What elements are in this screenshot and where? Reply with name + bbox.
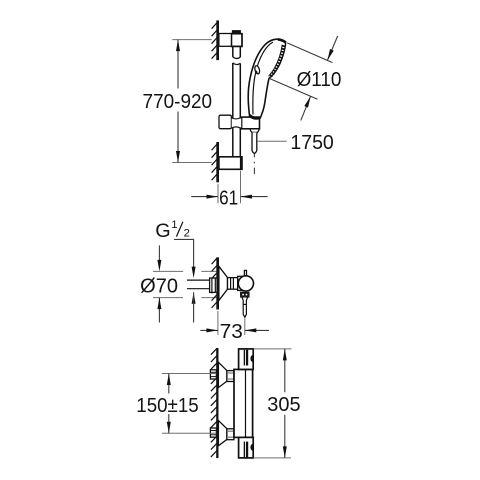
svg-text:305: 305 [267, 394, 300, 416]
dimension line 61 left segment [191, 196, 218, 198]
extension line 305 top [253, 348, 291, 350]
extension lines diameter 70 [153, 270, 183, 272]
connector bottom [227, 429, 234, 440]
top wall bracket [219, 34, 232, 47]
arrow shaft diameter 110 lower [301, 96, 311, 120]
face top rim bold [278, 39, 286, 42]
hand shower inner rim line [253, 42, 273, 114]
arrow up 150 [167, 374, 171, 386]
svg-text:2: 2 [184, 227, 190, 239]
valve body [238, 276, 244, 290]
hand shower body fill [248, 39, 286, 118]
hose union nut [241, 292, 249, 297]
extension line 73 right [244, 318, 246, 335]
union nut [210, 278, 218, 292]
extension line diameter 110 upper [287, 43, 332, 63]
arrow shaft diameter 110 upper [327, 36, 337, 61]
hand shower back edge stroke [248, 39, 286, 118]
valve knob circle [238, 276, 253, 291]
svg-text:G: G [155, 220, 170, 242]
shower hose [252, 132, 257, 153]
dimension line 150 segments [168, 374, 170, 394]
wall middle [216, 257, 219, 309]
arrow right 61 [207, 195, 219, 199]
dimension line 61 right segment [241, 196, 268, 198]
holder clamp white core [232, 118, 242, 127]
back nut bottom [210, 428, 216, 437]
rail tube upper segment [232, 46, 234, 56]
arrow diameter 110 upper [327, 49, 333, 60]
dimension line 305 segments [284, 349, 286, 392]
arrow up 770-920 top [176, 40, 180, 52]
dimension line 770-920 lower segment [177, 112, 179, 163]
hose centerline dash-dot [253, 154, 255, 157]
extension line bottom of 770-920 [172, 162, 211, 164]
arrow diameter 110 lower [304, 96, 310, 107]
svg-text:150±15: 150±15 [136, 395, 198, 417]
hand shower neck right edge stroke [260, 78, 269, 118]
extension line diameter 110 lower [270, 79, 318, 100]
wall hatching top [212, 23, 217, 59]
svg-text:1: 1 [171, 219, 177, 231]
bottom wall bracket [219, 157, 242, 170]
extension line 150 top [162, 373, 217, 375]
bottom knob [239, 437, 254, 458]
body inner line [245, 369, 247, 437]
s-union cone bottom [218, 420, 227, 445]
extension line 150 bottom [162, 432, 217, 434]
wall hatching lower [212, 144, 217, 180]
wall hatching bottom [211, 348, 217, 457]
wall bottom overlay [216, 348, 218, 458]
holder right block [242, 117, 260, 129]
rail head box [231, 34, 242, 47]
svg-text:61: 61 [219, 188, 238, 210]
rail tube lower segment [232, 63, 234, 158]
arrow down G 1/2 [192, 267, 196, 279]
extension line 61 right [240, 171, 242, 204]
holder clamp arcs [231, 118, 240, 119]
extension line 61 left [217, 184, 219, 204]
svg-text:Ø110: Ø110 [297, 69, 342, 91]
arrow down diameter 70 [158, 245, 160, 262]
arrow up G 1/2 lower [192, 292, 196, 304]
svg-text:73: 73 [220, 321, 243, 343]
top knob [239, 349, 254, 370]
arrow left 61 [241, 195, 253, 199]
rail break upper curve [233, 57, 241, 59]
spray face stipple band [269, 45, 284, 77]
valve knob stub [244, 270, 246, 275]
hand shower face edge stroke [269, 42, 286, 78]
svg-text:Ø70: Ø70 [140, 275, 178, 297]
dimension line 73 [200, 329, 218, 331]
arrow up diameter 70 [158, 298, 160, 323]
arrow down 150 [167, 422, 171, 434]
leader line 1750 [258, 140, 287, 142]
thermostat body [234, 369, 253, 437]
wall hatching middle [212, 258, 217, 308]
outlet tube [242, 297, 248, 317]
extension line 305 bottom [253, 457, 291, 459]
inlet pipe [187, 279, 210, 281]
svg-text:770-920: 770-920 [143, 91, 213, 113]
arrow left 73 [245, 328, 256, 332]
wall segment lower [216, 142, 219, 182]
svg-text:1750: 1750 [290, 132, 333, 154]
holder dark hook wedge [249, 113, 259, 120]
arrow up 305 [283, 349, 287, 361]
escutcheon cone [219, 266, 228, 300]
dimension line 770-920 upper segment [177, 40, 179, 89]
rail break lower curve [233, 63, 241, 65]
connector rings [228, 278, 238, 290]
s-union cone top [218, 362, 227, 387]
handle end cap [250, 129, 259, 133]
connector top [227, 371, 234, 382]
leader G 1/2 [174, 239, 194, 267]
extension line top of 770-920 [172, 39, 211, 41]
wall bottom [216, 348, 218, 458]
rail top cap [232, 30, 241, 34]
arrow right 73 [206, 328, 218, 332]
rail end dark bar [240, 157, 242, 169]
wall middle overlay [216, 257, 219, 309]
back nut top [210, 370, 216, 379]
spray mode button [254, 65, 260, 74]
arrow down 305 [283, 446, 287, 458]
holder left block [219, 115, 231, 129]
wall segment top [216, 20, 219, 60]
spray face inner line [269, 45, 283, 76]
arrow down 770-920 bottom [176, 151, 180, 163]
extension line 73 left [217, 311, 219, 335]
